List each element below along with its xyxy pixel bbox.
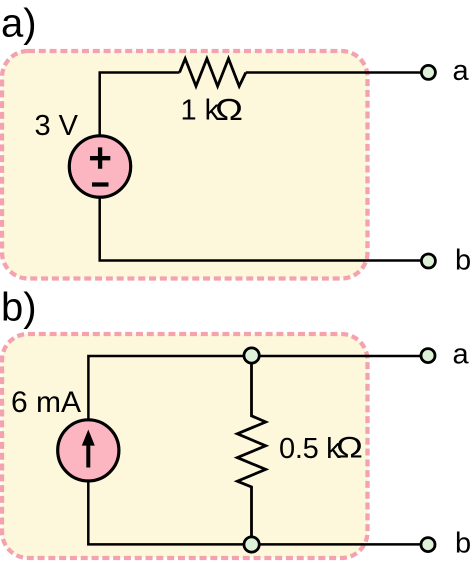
svg-text:a: a: [453, 339, 470, 371]
minus sign: [92, 182, 109, 186]
resistor R (0.5 kOhm) vertical zigzag with leads: [237, 356, 265, 544]
plus sign: [90, 147, 110, 168]
svg-text:0.5 k: 0.5 k: [279, 433, 341, 465]
wire: source bottom to bottom rail (circuit b): [88, 481, 422, 545]
dashed box b: [2, 334, 368, 558]
svg-text:Ω: Ω: [215, 93, 243, 127]
arrow (upward): [86, 443, 90, 468]
current source I1 (6 mA): [58, 420, 119, 481]
terminal a (circuit a): [421, 65, 435, 79]
node (bottom junction, circuit b): [244, 537, 259, 552]
dashed box a: [2, 51, 368, 279]
resistor R (1 kOhm) horizontal zigzag: [180, 59, 246, 87]
node (top junction, circuit b): [244, 348, 259, 363]
svg-text:b: b: [455, 528, 471, 560]
wire: top rail (circuit b): [88, 356, 422, 420]
voltage source V1 (3 V): [69, 136, 130, 197]
svg-text:3 V: 3 V: [35, 110, 79, 142]
wire: source top to resistor (circuit a): [100, 73, 180, 138]
svg-text:6 mA: 6 mA: [11, 386, 81, 419]
wire: resistor to terminal a: [246, 71, 422, 74]
svg-text:1 k: 1 k: [181, 95, 220, 127]
svg-text:a: a: [453, 55, 470, 87]
terminal a (circuit b): [421, 349, 435, 363]
wire: source bottom to terminal b: [100, 197, 422, 261]
terminal b (circuit b): [421, 538, 435, 552]
svg-text:Ω: Ω: [336, 431, 363, 464]
terminal b (circuit a): [421, 254, 435, 268]
svg-text:b: b: [455, 245, 471, 277]
svg-text:a): a): [1, 2, 37, 46]
svg-text:b): b): [1, 286, 37, 330]
